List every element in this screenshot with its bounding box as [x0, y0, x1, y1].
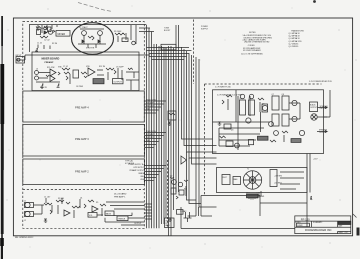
svg-text:JACK: JACK — [165, 224, 170, 227]
svg-text:OUTPUT: OUTPUT — [319, 132, 326, 134]
power supply lower box — [217, 168, 308, 193]
output jack label box — [165, 218, 175, 228]
svg-text:MIXER BOARD: MIXER BOARD — [42, 58, 60, 61]
right half output devices — [272, 96, 279, 110]
svg-text:PRE AMP 2: PRE AMP 2 — [75, 170, 89, 174]
right section dashed box — [205, 83, 322, 85]
svg-text:Q8: Q8 — [282, 94, 284, 96]
svg-text:SPARE: SPARE — [138, 172, 144, 175]
left dashed enclosure — [23, 22, 145, 229]
PRE AMP 2 box — [23, 159, 145, 185]
mixer board lower box — [32, 52, 139, 91]
svg-text:PREAMP OUTPUT: PREAMP OUTPUT — [129, 169, 144, 172]
speaker jack — [311, 114, 317, 120]
svg-text:R11 2.2K: R11 2.2K — [40, 87, 48, 89]
input connector left — [16, 55, 25, 63]
svg-text:VOL: VOL — [89, 215, 93, 217]
svg-text:Q2: Q2 — [170, 175, 172, 177]
svg-text:RICKENBACKER INC: RICKENBACKER INC — [305, 228, 332, 232]
main vertical bus — [147, 25, 167, 229]
mixer box V1 — [56, 31, 70, 37]
svg-text:CODES: CODES — [248, 45, 255, 47]
AC mains loop — [180, 194, 264, 222]
PRE AMP 3 box — [23, 125, 145, 157]
svg-text:SUPPLY: SUPPLY — [201, 28, 209, 30]
svg-text:UNLESS OTHERWISE NOTED: UNLESS OTHERWISE NOTED — [244, 42, 270, 44]
right outer connecting lines — [309, 154, 311, 193]
mixer lower circuit — [35, 66, 140, 91]
svg-text:J2: J2 — [24, 220, 26, 222]
preamp1 bus ticks — [145, 204, 153, 219]
svg-text:R1 220K: R1 220K — [36, 28, 44, 30]
scan edge bar left — [0, 16, 4, 259]
title block — [295, 216, 351, 234]
svg-text:Q3: Q3 — [231, 129, 233, 131]
svg-text:T1: T1 — [247, 169, 249, 171]
svg-text:RECT: RECT — [223, 177, 228, 179]
svg-text:Q-3 MPSA 18: Q-3 MPSA 18 — [289, 37, 300, 40]
driver stage cluster — [226, 141, 233, 147]
scan speck top right — [313, 0, 316, 3]
svg-text:SW1: SW1 — [261, 196, 265, 198]
svg-text:HTR SUP: HTR SUP — [146, 134, 154, 136]
svg-text:C7 .02: C7 .02 — [63, 66, 68, 68]
transformer — [243, 171, 261, 189]
svg-text:Q4: Q4 — [262, 103, 264, 105]
notes text block — [241, 32, 272, 56]
bus stub ticks preamp3 — [145, 131, 167, 148]
svg-text:C9 250PF: C9 250PF — [116, 67, 124, 69]
svg-text:FR 120: FR 120 — [301, 218, 310, 222]
svg-text:HTR SUPPLY: HTR SUPPLY — [134, 167, 145, 169]
lower row in box — [299, 130, 304, 135]
AC plug — [184, 212, 192, 222]
svg-text:SHEET 1 OF 1: SHEET 1 OF 1 — [338, 232, 348, 234]
svg-text:Q-9 2N3055: Q-9 2N3055 — [289, 46, 299, 48]
bottom connecting wires — [180, 207, 182, 229]
svg-text:C1 .05: C1 .05 — [37, 43, 42, 45]
svg-text:BASS: BASS — [106, 213, 112, 216]
PRE AMP 4 box — [23, 91, 145, 122]
secondary bus — [169, 25, 179, 236]
svg-text:R3 1M: R3 1M — [52, 43, 58, 45]
svg-text:NOTES: NOTES — [249, 32, 256, 34]
svg-text:Q-5 MPSA 1220: Q-5 MPSA 1220 — [289, 40, 302, 43]
dashed vertical near bus — [193, 20, 195, 85]
svg-text:PRE AMP 4: PRE AMP 4 — [75, 106, 89, 110]
svg-text:BOOST: BOOST — [164, 30, 171, 32]
bus stub ticks preamp2 with labels — [128, 164, 166, 181]
wedge symbol — [181, 156, 187, 164]
svg-text:PRE OUT: PRE OUT — [146, 105, 154, 107]
svg-text:+15V: +15V — [313, 159, 318, 161]
bus top links — [147, 48, 192, 60]
svg-text:RE: WIRING FR12: RE: WIRING FR12 — [15, 237, 34, 239]
bus stub ticks preamp4 — [145, 99, 167, 113]
svg-text:OUTPUT: OUTPUT — [310, 107, 317, 109]
svg-text:5-1V POWER/DRIVER PCB: 5-1V POWER/DRIVER PCB — [309, 81, 332, 83]
svg-text:A.I.L I'L I'M SUPPRESSED: A.I.L I'L I'M SUPPRESSED — [241, 53, 263, 56]
svg-text:+15V REG: +15V REG — [274, 176, 283, 178]
scan scratch top — [78, 3, 112, 12]
svg-text:R12 470K: R12 470K — [47, 67, 55, 69]
svg-text:J1: J1 — [24, 201, 26, 203]
phase inverter cluster — [168, 160, 189, 228]
speaker output arrow — [317, 117, 327, 133]
nested wrap lines — [182, 47, 217, 210]
tube enclosure ellipse — [72, 23, 114, 55]
svg-text:Q1: Q1 — [80, 198, 82, 200]
wires from mixer to bus — [139, 25, 154, 32]
svg-text:V2 12AX7: V2 12AX7 — [79, 26, 88, 29]
regulators — [270, 170, 277, 187]
drawing frame — [13, 18, 352, 236]
component on secondary bus — [168, 111, 183, 221]
svg-text:5.1 POWER PC BD: 5.1 POWER PC BD — [215, 87, 231, 89]
svg-text:REV 1: REV 1 — [162, 48, 167, 50]
svg-text:PREAMP: PREAMP — [45, 61, 55, 64]
svg-text:Q5: Q5 — [239, 98, 241, 100]
svg-text:FR 120/BT SPEAKER: FR 120/BT SPEAKER — [243, 49, 261, 52]
svg-text:OUTPUT: OUTPUT — [114, 82, 123, 84]
scan tick above title — [310, 196, 312, 200]
svg-text:OUTPUT: OUTPUT — [134, 223, 142, 225]
svg-text:6.3V HTR: 6.3V HTR — [86, 48, 95, 50]
svg-text:C2 .02: C2 .02 — [44, 40, 50, 42]
svg-text:MIXER: MIXER — [58, 33, 66, 36]
scan marks right edge — [353, 214, 357, 218]
svg-text:R15 1M: R15 1M — [99, 66, 106, 68]
svg-text:TREBLE: TREBLE — [118, 219, 126, 221]
right of ellipse components — [114, 25, 136, 45]
svg-text:POWER SUPPLY B+: POWER SUPPLY B+ — [128, 164, 144, 166]
svg-text:Q-2 MPSA 18: Q-2 MPSA 18 — [289, 35, 300, 38]
inner structure — [213, 90, 318, 150]
svg-text:J3: J3 — [36, 69, 38, 71]
svg-text:PRE AMP 1: PRE AMP 1 — [114, 195, 126, 198]
svg-text:C8 25MF: C8 25MF — [76, 86, 83, 88]
svg-text:C1 .047: C1 .047 — [44, 197, 50, 199]
speaker output label upper — [318, 106, 328, 108]
svg-text:Q7: Q7 — [272, 94, 274, 96]
power amp main box — [213, 90, 324, 154]
svg-text:INPUT: INPUT — [16, 55, 23, 57]
svg-text:R5: R5 — [96, 202, 98, 204]
svg-text:OUTPUT: OUTPUT — [320, 108, 327, 110]
PRE AMP 1 circuit — [24, 197, 145, 226]
svg-text:E30R: E30R — [298, 225, 304, 227]
svg-text:PRE OUT: PRE OUT — [146, 137, 154, 139]
svg-text:Q-1 MPSA 18: Q-1 MPSA 18 — [289, 32, 300, 35]
output label block — [310, 102, 318, 112]
svg-text:PRE AMP 3: PRE AMP 3 — [75, 137, 89, 141]
top wire run — [29, 24, 139, 26]
PRE AMP 1 dashed top — [23, 189, 144, 191]
svg-text:TRANSISTORS: TRANSISTORS — [291, 29, 305, 32]
svg-text:HTR SUP: HTR SUP — [146, 102, 154, 104]
svg-text:R9 100K: R9 100K — [114, 31, 122, 33]
tube internals — [78, 26, 106, 50]
svg-text:R2 68K: R2 68K — [58, 198, 65, 200]
svg-text:DLL BOARD: DLL BOARD — [114, 192, 127, 195]
mixer top cluster — [35, 25, 57, 51]
